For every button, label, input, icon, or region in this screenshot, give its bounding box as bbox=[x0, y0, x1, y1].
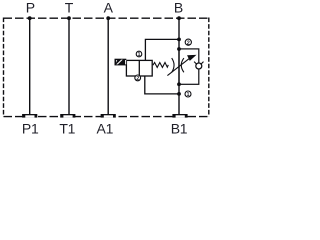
wire B line bbox=[178, 18, 180, 114]
manifold boundary top edge (dashed) bbox=[4, 17, 209, 19]
solenoid actuator of V1 bbox=[115, 59, 127, 66]
node bypass-lower junction on B line bbox=[177, 92, 181, 96]
wire bypass upper (valve top port to B line) bbox=[145, 39, 179, 60]
node A (junction dot) bbox=[106, 16, 110, 20]
svg-text:P1: P1 bbox=[22, 120, 39, 136]
svg-text:1: 1 bbox=[138, 52, 141, 58]
port P1 symbol (bottom connection) bbox=[22, 114, 37, 118]
manifold boundary bottom edge (dashed) bbox=[4, 116, 209, 118]
manifold boundary right edge (dashed) bbox=[208, 18, 210, 117]
svg-text:B: B bbox=[174, 0, 183, 16]
svg-text:T: T bbox=[65, 0, 74, 16]
pin label 2 of V1 (circled) bbox=[135, 75, 141, 81]
svg-text:2: 2 bbox=[136, 76, 139, 82]
port T1 symbol (bottom connection) bbox=[60, 114, 75, 118]
pin label 1 of FC1 (circled) bbox=[185, 91, 191, 97]
wire bypass lower (valve bottom port to B line) bbox=[145, 76, 179, 94]
svg-text:1: 1 bbox=[187, 92, 190, 98]
svg-text:A1: A1 bbox=[97, 120, 114, 136]
valve V1 solenoid 2/2 body (two position envelope) bbox=[126, 60, 152, 76]
node FC1 outlet junction (box bottom-left corner) bbox=[177, 82, 181, 86]
svg-text:P: P bbox=[26, 0, 35, 16]
pin label 2 of FC1 (circled) bbox=[185, 39, 191, 45]
manifold boundary left edge (dashed) bbox=[3, 18, 5, 117]
check valve ball of FC1 bbox=[194, 62, 203, 69]
wire P line bbox=[29, 18, 31, 114]
port A1 symbol (bottom connection) bbox=[101, 114, 116, 118]
pin label 1 of V1 (circled) bbox=[136, 51, 142, 57]
svg-text:2: 2 bbox=[187, 40, 190, 46]
adjustment arrow shaft of FC1 bbox=[167, 58, 190, 76]
port B1 symbol (bottom connection) bbox=[172, 114, 187, 118]
node B (junction dot) bbox=[177, 16, 181, 20]
node FC1 inlet junction (box top-left corner) bbox=[177, 47, 181, 51]
svg-text:A: A bbox=[104, 0, 114, 16]
flow control FC1 envelope box bbox=[179, 49, 199, 84]
wire T line bbox=[68, 18, 70, 114]
node T (junction dot) bbox=[67, 16, 71, 20]
node bypass-upper junction on B line bbox=[177, 38, 181, 42]
adjustment arrow head of FC1 bbox=[188, 55, 196, 60]
wire A line bbox=[107, 18, 109, 114]
svg-text:T1: T1 bbox=[59, 120, 75, 136]
throttle arcs of FC1 bbox=[172, 58, 184, 72]
svg-text:B1: B1 bbox=[171, 120, 188, 136]
node P (junction dot) bbox=[28, 16, 32, 20]
spring of V1 bbox=[153, 63, 168, 68]
